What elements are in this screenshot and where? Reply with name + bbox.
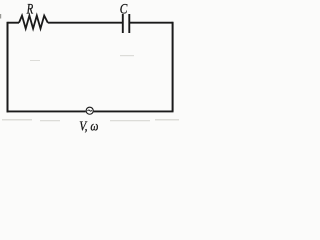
scan noise speckles (2, 55, 179, 121)
wire: bottom right segment (94, 110, 174, 112)
wire: left side (7, 22, 9, 113)
AC source V (86, 107, 93, 114)
paper background (0, 0, 185, 139)
svg-text:V, ω: V, ω (79, 118, 98, 133)
edge artifact (0, 14, 1, 19)
capacitor C right plate (128, 14, 130, 33)
wire: top middle segment (48, 22, 123, 24)
capacitor C left plate (122, 14, 124, 33)
svg-text:C: C (120, 1, 128, 17)
resistor R (19, 16, 48, 29)
wire: right side (172, 22, 174, 112)
svg-text:R: R (26, 2, 34, 18)
wire: top-left segment (8, 22, 20, 24)
wire: bottom left segment (7, 110, 86, 112)
tilde inside source (88, 110, 92, 111)
wire: top right segment (130, 22, 173, 24)
